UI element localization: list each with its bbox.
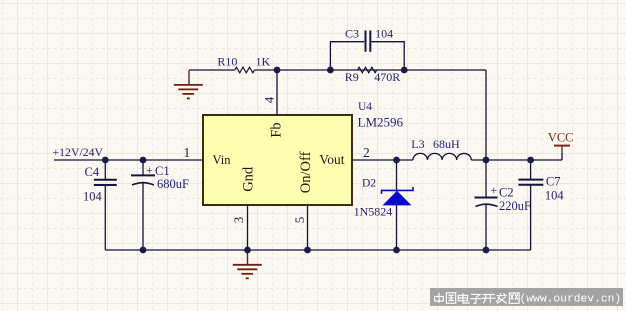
wire input rail y=160 [54,159,203,161]
svg-text:1K: 1K [256,55,271,69]
svg-text:C7: C7 [546,175,561,189]
wire output net y=160 [352,159,562,161]
svg-text:L3: L3 [411,137,424,151]
wire C1 branch [142,160,144,250]
watermark chinese glyphs [435,293,519,304]
wire VCC stub [561,153,563,160]
wire C2 branch [485,160,487,250]
svg-text:Vin: Vin [213,153,232,167]
kai [482,295,496,304]
watermark bar [430,288,623,306]
svg-text:3: 3 [231,217,246,224]
wire D2 branch [396,160,398,250]
svg-text:1: 1 [183,145,190,160]
wire feedback net y=70 [189,70,486,160]
svg-text:R10: R10 [217,55,237,69]
capacitor C7 [518,180,543,185]
wire C4 branch [104,160,106,250]
capacitor C1 (electrolytic) [131,175,155,185]
svg-text:+12V/24V: +12V/24V [53,145,104,159]
svg-text:104: 104 [375,26,393,40]
svg-text:Gnd: Gnd [241,166,257,192]
svg-text:470R: 470R [374,70,400,84]
svg-text:4: 4 [262,96,277,103]
fa [496,293,507,304]
svg-text:On/Off: On/Off [298,151,314,193]
svg-text:104: 104 [545,188,565,202]
svg-text:Fb: Fb [268,122,284,137]
op-amp U4 LM2596 body [203,115,352,205]
capacitor C3 [366,31,371,52]
diode D2 (schottky) [382,187,414,206]
svg-text:680uF: 680uF [157,177,189,191]
capacitor C4 [94,180,117,185]
svg-text:C4: C4 [85,165,100,179]
svg-text:(www.ourdev.cn): (www.ourdev.cn) [520,294,622,306]
wire C3 bypass loop [330,42,404,70]
ground symbol bottom [233,250,262,278]
zi [470,294,481,303]
svg-text:VCC: VCC [548,131,574,145]
svg-text:Vout: Vout [319,152,345,167]
svg-text:LM2596: LM2596 [358,115,404,130]
svg-text:+: + [146,163,153,177]
svg-text:R9: R9 [345,70,359,84]
svg-text:C3: C3 [345,26,359,40]
svg-text:104: 104 [83,190,103,204]
svg-text:220uF: 220uF [499,199,531,213]
svg-text:C1: C1 [155,164,170,178]
svg-text:+: + [490,183,497,197]
wire pin4 [276,70,278,115]
svg-text:U4: U4 [358,101,372,113]
guo [446,293,455,303]
wire C7 branch [530,160,532,250]
svg-text:2: 2 [363,145,370,160]
wire ground rail y=250 [105,249,530,251]
wire pin3 to ground rail [247,205,249,250]
svg-text:D2: D2 [362,178,376,190]
capacitor C2 (electrolytic) [475,198,498,207]
svg-text:C2: C2 [499,186,514,200]
svg-text:1N5824: 1N5824 [354,204,393,218]
inductor L3 [413,153,471,160]
resistor R9 [358,67,377,73]
svg-text:68uH: 68uH [433,137,460,151]
wire pin5 to ground rail [307,205,309,250]
dian [458,293,469,303]
svg-text:5: 5 [292,217,307,224]
zhong [435,293,444,303]
wang [509,293,519,303]
ground symbol top-left [174,71,203,99]
resistor R10 [235,67,255,73]
power VCC symbol [554,146,570,153]
